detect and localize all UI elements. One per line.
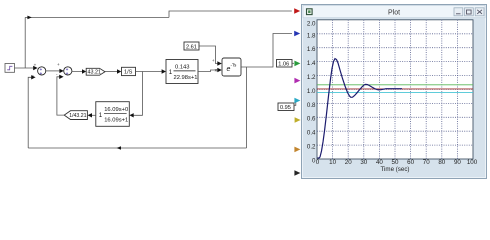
scope input arrow magenta	[294, 78, 300, 84]
svg-text:1.4: 1.4	[307, 60, 316, 67]
wire sum1 to sum2	[46, 70, 60, 72]
integrator 1/s	[122, 67, 136, 75]
svg-text:0.2: 0.2	[307, 144, 316, 151]
step response curve	[318, 59, 403, 158]
svg-text:43.21: 43.21	[88, 70, 102, 76]
node branch down to lag filter	[134, 72, 143, 116]
svg-text:+: +	[34, 62, 37, 67]
wire step to sum1	[15, 67, 34, 69]
minimize button	[454, 8, 463, 16]
svg-text:2.0: 2.0	[307, 21, 316, 28]
wire gain to sum2 lower port	[57, 77, 64, 115]
arrow into lag filter right side	[129, 113, 133, 117]
reference line cyan 0.95 (lower)	[317, 91, 473, 93]
wire sum2 to gain K	[72, 70, 82, 73]
svg-text:1/S: 1/S	[124, 70, 133, 76]
reference line green (upper)	[317, 84, 473, 86]
display 0.95	[278, 103, 296, 112]
svg-text:1/43.21: 1/43.21	[69, 113, 86, 119]
plot axes area	[317, 20, 473, 159]
gain 1/43.21 (points left)	[64, 111, 87, 120]
svg-text:Plot: Plot	[388, 10, 400, 17]
svg-text:0.6: 0.6	[307, 116, 316, 123]
svg-text:0.4: 0.4	[307, 130, 316, 137]
svg-text:1: 1	[169, 69, 173, 76]
svg-text:10: 10	[329, 159, 336, 166]
wire integrator to plant	[136, 71, 162, 73]
svg-text:Time (sec): Time (sec)	[381, 166, 410, 173]
wire feedback riser to sum1	[28, 77, 31, 148]
title bar icon	[307, 9, 313, 15]
scope input arrow blue	[294, 31, 300, 37]
svg-text:2.61: 2.61	[186, 44, 197, 50]
gain 43.21	[86, 68, 105, 75]
sum junction S1	[32, 62, 46, 77]
grid vertical lines	[333, 20, 458, 159]
scope input arrow red	[294, 8, 300, 14]
scope input arrow black	[294, 170, 300, 176]
svg-text:0.8: 0.8	[307, 102, 316, 109]
svg-text:80: 80	[438, 159, 445, 166]
svg-text:22.98s+1: 22.98s+1	[174, 75, 198, 81]
svg-text:0: 0	[316, 159, 320, 166]
close button	[475, 8, 484, 16]
y axis labels	[307, 21, 316, 165]
wire	[169, 11, 292, 17]
svg-text:90: 90	[454, 159, 461, 166]
wire plant to delay lower port	[198, 70, 218, 72]
grid horizontal lines	[317, 34, 473, 145]
bottom feedback wire	[28, 147, 246, 149]
display 1.06	[277, 60, 295, 68]
svg-text:30: 30	[360, 159, 367, 166]
svg-text:0.143: 0.143	[175, 65, 190, 71]
node branch to outer feedback	[246, 67, 248, 148]
arrow on bottom wire	[117, 146, 121, 150]
sum junction S2	[56, 62, 72, 77]
svg-text:+: +	[66, 71, 69, 76]
svg-text:0.95: 0.95	[280, 105, 291, 111]
svg-text:1.8: 1.8	[307, 32, 316, 39]
svg-text:+: +	[57, 62, 60, 67]
svg-text:+: +	[40, 71, 43, 76]
step source block	[5, 64, 15, 73]
scope input arrow orange	[294, 147, 300, 153]
svg-text:1.2: 1.2	[307, 74, 316, 81]
svg-text:1.0: 1.0	[307, 88, 316, 95]
scope title bar	[303, 6, 485, 18]
scope input arrow green	[294, 61, 300, 67]
svg-text:16.09s+0: 16.09s+0	[104, 107, 128, 113]
svg-text:50: 50	[392, 159, 399, 166]
wire 2.61 to delay upper port	[199, 46, 218, 64]
wire lag filter to gain 1/43.21	[92, 114, 96, 116]
lag filter (16.09s+0)/(16.09s+1)	[96, 102, 130, 127]
svg-text:1.6: 1.6	[307, 46, 316, 53]
arrow into sum1 upper port	[33, 66, 37, 70]
wire gain to integrator	[105, 71, 117, 73]
scope window frame	[302, 5, 487, 179]
transport delay e^-Ts	[222, 58, 241, 76]
x axis labels	[316, 159, 478, 166]
svg-text:60: 60	[407, 159, 414, 166]
svg-text:1.06: 1.06	[278, 62, 289, 68]
scope input arrow cyan	[294, 98, 300, 104]
svg-text:-Ts: -Ts	[231, 63, 238, 68]
node branch to top line	[24, 17, 26, 68]
svg-text:20: 20	[345, 159, 352, 166]
scope input arrow yellow	[295, 117, 301, 123]
svg-text:100: 100	[467, 159, 478, 166]
wire delay output	[241, 34, 292, 68]
reference line red 1.0	[317, 88, 473, 90]
constant 2.61	[184, 42, 199, 50]
wire top feedback to scope	[25, 16, 169, 18]
arrow into sum2	[59, 69, 63, 73]
restore button	[465, 8, 474, 16]
svg-text:16.09s+1: 16.09s+1	[104, 117, 128, 123]
svg-text:70: 70	[423, 159, 430, 166]
svg-text:1: 1	[99, 112, 103, 119]
plant transfer fn 0.143/(22.98s+1)	[166, 60, 198, 84]
svg-text:40: 40	[376, 159, 383, 166]
arrow on top line	[27, 16, 31, 20]
